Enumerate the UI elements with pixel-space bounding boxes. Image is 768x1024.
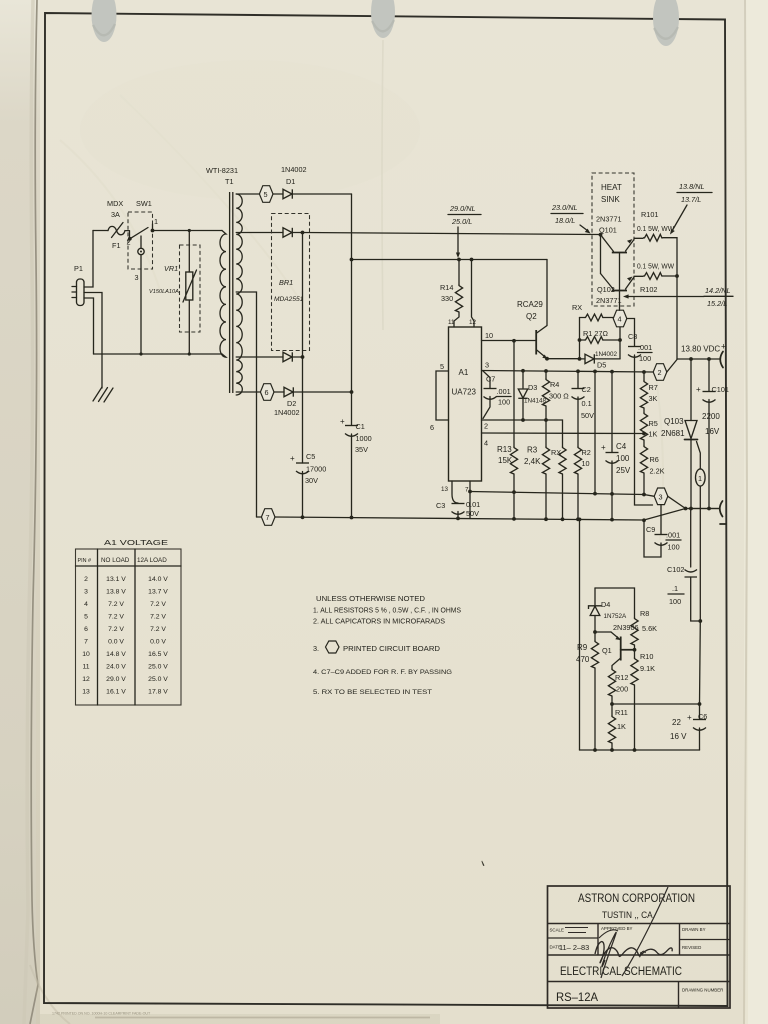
svg-text:1K: 1K: [649, 430, 658, 439]
svg-text:3: 3: [485, 361, 489, 370]
resistor R101: [634, 237, 643, 239]
svg-text:35V: 35V: [355, 445, 368, 454]
svg-text:RCA29: RCA29: [517, 300, 543, 309]
resistor RX column: [559, 446, 566, 474]
capacitor C2 0.1/50V: [576, 369, 580, 373]
varistor symbol: [186, 272, 193, 300]
diode D2 1N4002: [284, 387, 293, 396]
wire switch to transformer: [153, 230, 223, 232]
faint creases / stains: [120, 95, 300, 300]
svg-text:25.0/L: 25.0/L: [451, 217, 472, 226]
svg-text:MDA2551: MDA2551: [274, 296, 304, 303]
heat sink dashed box: [592, 173, 634, 306]
svg-text:SCALE: SCALE: [550, 928, 564, 933]
svg-text:15K: 15K: [498, 456, 513, 465]
svg-text:R6: R6: [650, 455, 659, 464]
R14 330: [457, 258, 461, 262]
svg-text:RX: RX: [551, 448, 561, 457]
svg-text:DRAWING NUMBER: DRAWING NUMBER: [682, 988, 723, 993]
svg-text:.001: .001: [497, 387, 511, 396]
switch blade: [125, 228, 148, 239]
svg-text:0.1 5W, WW: 0.1 5W, WW: [637, 262, 674, 271]
svg-text:TUSTIN ,, CA.: TUSTIN ,, CA.: [602, 910, 655, 920]
BR1 top diode: [283, 228, 292, 237]
svg-text:T1: T1: [225, 177, 234, 186]
bottom AC wire: [94, 353, 223, 355]
svg-text:Q101: Q101: [599, 226, 617, 235]
hole punch left: [92, 0, 117, 42]
svg-text:3A: 3A: [111, 210, 120, 219]
svg-text:4: 4: [84, 601, 88, 608]
svg-text:RS–12A: RS–12A: [556, 990, 598, 1004]
RX / R1 / D5 parallel group: [579, 318, 581, 359]
right paper edge: [744, 0, 747, 1024]
plug P1: [77, 279, 85, 306]
svg-text:2,4K: 2,4K: [524, 457, 541, 466]
zener D4 1N752A: [594, 588, 596, 605]
T1 secondary winding: [236, 194, 242, 395]
svg-text:HEAT: HEAT: [601, 183, 622, 192]
svg-text:C1: C1: [356, 422, 365, 431]
svg-text:3: 3: [659, 493, 663, 502]
bottom scan shadow: [40, 1014, 440, 1024]
svg-text:22: 22: [672, 718, 681, 727]
P1 prongs: [72, 287, 77, 298]
svg-text:NO LOAD: NO LOAD: [101, 557, 130, 564]
svg-text:+: +: [721, 342, 726, 352]
torn left paper edge: [30, 0, 38, 1024]
svg-text:R8: R8: [640, 609, 649, 618]
svg-text:.1: .1: [672, 584, 678, 593]
svg-text:2. ALL CAPICATORS IN MICROFAR: 2. ALL CAPICATORS IN MICROFARADS: [313, 617, 445, 626]
resistor R4 300: [544, 369, 548, 373]
capacitor C8: [628, 347, 641, 358]
resistor R6 2.2K: [643, 440, 645, 445]
svg-text:BR1: BR1: [279, 278, 293, 287]
resistor R10 9.1K: [634, 650, 636, 657]
svg-text:C2: C2: [582, 385, 591, 394]
svg-text:3.: 3.: [313, 644, 319, 653]
D1/D2 column with C1 down to ground rail: [351, 194, 353, 518]
svg-text:R9: R9: [577, 643, 588, 652]
svg-text:1: 1: [698, 474, 702, 483]
svg-text:16V: 16V: [705, 427, 720, 436]
svg-text:6: 6: [430, 423, 434, 432]
svg-text:11: 11: [448, 319, 455, 326]
svg-text:+: +: [696, 385, 701, 394]
svg-text:16 V: 16 V: [670, 732, 687, 741]
13.80 VDC rail: [677, 358, 720, 360]
svg-text:PIN #: PIN #: [78, 558, 91, 564]
node 2: [653, 364, 667, 381]
svg-text:14.8 V: 14.8 V: [106, 651, 126, 658]
svg-text:100: 100: [668, 543, 680, 552]
ground rail: [275, 509, 719, 521]
resistor R9 470: [594, 632, 596, 640]
svg-text:50V: 50V: [581, 411, 594, 420]
svg-text:7: 7: [84, 639, 88, 646]
BR1 dashed box: [272, 214, 310, 351]
resistor R8 5.6K: [631, 617, 638, 645]
svg-text:2: 2: [127, 238, 131, 247]
svg-text:18.0/L: 18.0/L: [555, 216, 575, 225]
capacitor C101 2200/16V: [708, 359, 710, 509]
capacitor C5: [302, 472, 304, 518]
svg-text:13.1 V: 13.1 V: [106, 576, 126, 583]
crowbar top wire: [595, 588, 635, 617]
crowbar junction wire to C6: [612, 703, 700, 705]
svg-text:REVISED: REVISED: [682, 945, 701, 950]
svg-text:2N3771: 2N3771: [596, 296, 622, 305]
wire BR1 output rail to heatsink: [303, 233, 601, 235]
svg-text:300 Ω: 300 Ω: [549, 392, 569, 401]
secondary tap 2 to BR1: [236, 232, 283, 234]
svg-text:2: 2: [84, 576, 88, 583]
svg-text:13.7 V: 13.7 V: [148, 589, 168, 596]
wire P1 neutral to bottom rail: [84, 298, 94, 354]
resistor R102: [634, 275, 643, 277]
svg-text:330: 330: [441, 294, 453, 303]
svg-text:D2: D2: [287, 399, 296, 408]
svg-text:+: +: [290, 454, 295, 463]
svg-text:7.2 V: 7.2 V: [150, 614, 166, 621]
svg-text:C7: C7: [486, 375, 495, 384]
svg-text:ELECTRICAL SCHEMATIC: ELECTRICAL SCHEMATIC: [560, 964, 682, 978]
svg-text:PRINTED CIRCUIT BOARD: PRINTED CIRCUIT BOARD: [343, 644, 440, 653]
svg-text:+: +: [601, 443, 606, 452]
svg-text:Q1: Q1: [602, 646, 612, 655]
svg-text:C6: C6: [698, 712, 707, 721]
output column from R101/R102: [676, 238, 678, 359]
svg-text:100: 100: [498, 398, 510, 407]
diode D5 1N4002: [580, 358, 586, 360]
svg-text:R102: R102: [640, 285, 657, 294]
svg-text:.001: .001: [666, 531, 680, 540]
svg-text:1K: 1K: [617, 722, 626, 731]
capacitor C7 branch: [483, 371, 490, 419]
pin7 sense wire to node 3: [470, 492, 644, 495]
capacitor C6 22/16V: [699, 621, 702, 719]
svg-text:25V: 25V: [616, 466, 631, 475]
svg-text:0.1: 0.1: [582, 399, 592, 408]
svg-text:R1 27Ω: R1 27Ω: [583, 329, 608, 338]
node 6: [260, 384, 274, 401]
svg-text:10: 10: [582, 459, 590, 468]
wire P1 hot to fuse: [84, 231, 93, 288]
fuse F1: [108, 226, 125, 234]
svg-text:17.8 V: 17.8 V: [148, 689, 168, 696]
svg-text:R10: R10: [640, 652, 653, 661]
svg-text:10: 10: [82, 651, 90, 658]
svg-text:24.0 V: 24.0 V: [106, 664, 126, 671]
svg-text:C3: C3: [436, 501, 445, 510]
svg-text:C9: C9: [646, 525, 655, 534]
resistor R3 2.4K: [542, 446, 549, 474]
wire node4 to C8 column: [627, 319, 635, 347]
BR1 lower diode: [283, 352, 292, 361]
svg-text:100: 100: [669, 597, 681, 606]
wire node5 to D1: [273, 193, 283, 195]
svg-text:R14: R14: [440, 283, 453, 292]
svg-text:3: 3: [84, 589, 88, 596]
node 5: [259, 186, 273, 203]
svg-text:R7: R7: [649, 383, 658, 392]
svg-text:12: 12: [469, 319, 477, 326]
varistor VR1 dashed box: [180, 245, 201, 332]
svg-text:R11: R11: [615, 708, 628, 717]
svg-text:P1: P1: [74, 264, 83, 273]
svg-text:30V: 30V: [305, 476, 318, 485]
svg-text:13: 13: [82, 689, 90, 696]
svg-text:R4: R4: [550, 380, 559, 389]
svg-text:0.0 V: 0.0 V: [150, 639, 166, 646]
svg-text:15.2/L: 15.2/L: [707, 299, 727, 308]
svg-text:SW1: SW1: [136, 199, 152, 208]
svg-text:13.8 V: 13.8 V: [106, 589, 126, 596]
svg-text:7.2 V: 7.2 V: [108, 626, 124, 633]
svg-text:D1: D1: [286, 177, 295, 186]
svg-text:7.2 V: 7.2 V: [108, 601, 124, 608]
svg-text:2N3771: 2N3771: [596, 215, 622, 224]
svg-text:Q102: Q102: [597, 285, 615, 294]
svg-text:29.0 V: 29.0 V: [106, 676, 126, 683]
base line Q101/Q102 to node 4: [619, 253, 621, 311]
node 4: [613, 310, 627, 327]
svg-text:23.0/NL: 23.0/NL: [551, 203, 578, 212]
secondary center tap: [236, 292, 256, 517]
svg-text:13.7/L: 13.7/L: [681, 195, 701, 204]
hole punch middle: [371, 0, 395, 38]
svg-text:V150LA10A: V150LA10A: [149, 289, 179, 295]
svg-text:D4: D4: [601, 600, 610, 609]
svg-text:2: 2: [484, 422, 488, 431]
lower output rail: [686, 508, 720, 510]
svg-text:1N752A: 1N752A: [604, 613, 628, 620]
svg-text:12: 12: [82, 676, 90, 683]
svg-text:SINK: SINK: [601, 195, 620, 204]
svg-text:F1: F1: [112, 241, 121, 250]
stray ink mark: [482, 861, 485, 867]
diode D1 1N4002: [283, 189, 292, 198]
svg-text:3: 3: [135, 273, 139, 282]
svg-text:25.0 V: 25.0 V: [148, 676, 168, 683]
hole punch right: [653, 0, 679, 46]
svg-text:D3: D3: [528, 383, 537, 392]
svg-text:R5: R5: [649, 419, 658, 428]
svg-text:2.2K: 2.2K: [650, 467, 665, 476]
secondary bottom tap to node 6: [236, 391, 260, 393]
svg-text:2: 2: [658, 368, 662, 377]
svg-text:C5: C5: [306, 452, 315, 461]
svg-text:16.5 V: 16.5 V: [148, 651, 168, 658]
svg-text:100: 100: [639, 354, 651, 363]
svg-text:VR1: VR1: [164, 264, 178, 273]
svg-text:Q103: Q103: [664, 417, 684, 426]
svg-text:C101: C101: [712, 385, 729, 394]
svg-text:5: 5: [440, 362, 444, 371]
svg-text:R2: R2: [582, 448, 591, 457]
svg-text:0.1 5W, WW: 0.1 5W, WW: [637, 224, 674, 233]
svg-text:7.2 V: 7.2 V: [108, 614, 124, 621]
capacitor C9 below node 3: [660, 505, 662, 534]
svg-text:470: 470: [576, 655, 590, 664]
svg-text:D5: D5: [597, 361, 606, 370]
svg-text:R13: R13: [497, 445, 512, 454]
svg-text:13: 13: [441, 486, 449, 493]
T1 primary winding: [220, 231, 226, 358]
output connector +: [720, 352, 723, 368]
svg-text:RX: RX: [572, 303, 582, 312]
secondary tap 4 to BR1 lower diode: [236, 356, 283, 358]
svg-text:5: 5: [84, 614, 88, 621]
BR1 output column down to C5: [302, 233, 304, 464]
output connector -: [720, 501, 723, 517]
wire top AC: [93, 230, 108, 232]
svg-text:2200: 2200: [702, 412, 720, 421]
svg-text:Q2: Q2: [526, 312, 537, 321]
svg-text:4: 4: [484, 439, 488, 448]
svg-text:C8: C8: [628, 332, 637, 341]
capacitor C102 .1/100: [690, 509, 692, 568]
Q2 emitter wire: [547, 358, 580, 360]
signature: [622, 887, 668, 976]
node 3: [644, 495, 654, 497]
pin 12 wire: [470, 258, 474, 262]
svg-text:R3: R3: [527, 446, 538, 455]
svg-text:A1 VOLTAGE: A1 VOLTAGE: [104, 538, 168, 547]
svg-text:A1: A1: [459, 368, 469, 377]
svg-text:14.0 V: 14.0 V: [148, 576, 168, 583]
resistor R11 1K: [611, 704, 613, 715]
svg-text:UA723: UA723: [452, 388, 477, 397]
svg-text:C102: C102: [667, 565, 684, 574]
svg-text:13.8/NL: 13.8/NL: [679, 182, 705, 191]
secondary tap top to node 5: [236, 193, 259, 195]
VR1 wires: [188, 231, 190, 355]
resistor R7 3K: [642, 370, 646, 374]
wire D1 to corner: [292, 193, 351, 195]
svg-text:ASTRON CORPORATION: ASTRON CORPORATION: [578, 891, 695, 905]
resistor R13 15K column: [513, 341, 515, 446]
svg-text:11– 2–83: 11– 2–83: [559, 943, 589, 952]
capacitor C4 100/25V: [610, 370, 614, 374]
svg-text:9.1K: 9.1K: [640, 664, 655, 673]
svg-text:6: 6: [265, 388, 269, 397]
svg-text:5: 5: [264, 190, 268, 199]
svg-text:4. C7–C9 ADDED FOR R. F. BY: 4. C7–C9 ADDED FOR R. F. BY PASSING: [313, 669, 452, 676]
svg-text:2N681: 2N681: [661, 429, 685, 438]
svg-text:4: 4: [618, 315, 622, 324]
T1 core: [230, 192, 233, 393]
svg-text:DRAWN BY: DRAWN BY: [682, 927, 706, 932]
wire node link: [593, 370, 597, 374]
svg-text:5. RX TO BE SELECTED IN TEST: 5. RX TO BE SELECTED IN TEST: [313, 689, 432, 696]
svg-text:WTI-8231: WTI-8231: [206, 166, 238, 175]
svg-text:50V: 50V: [466, 509, 479, 518]
svg-text:12A LOAD: 12A LOAD: [137, 557, 167, 564]
svg-text:R12: R12: [615, 673, 628, 682]
wire D2 to column: [293, 391, 351, 393]
ground: [93, 387, 113, 402]
svg-text:29.0/NL: 29.0/NL: [449, 204, 476, 213]
svg-text:200: 200: [616, 685, 628, 694]
svg-text:13.80 VDC: 13.80 VDC: [681, 345, 720, 354]
svg-text:5.6K: 5.6K: [642, 624, 657, 633]
wire node6 to D2: [274, 391, 284, 393]
SCR gate to PCB pin 1: [697, 442, 701, 470]
svg-text:.001: .001: [638, 343, 652, 352]
svg-text:17000: 17000: [306, 465, 326, 474]
svg-text:11: 11: [82, 664, 89, 671]
junction BR1 top out: [301, 231, 305, 235]
svg-text:7: 7: [266, 513, 270, 522]
svg-text:1N4002: 1N4002: [595, 351, 618, 358]
svg-text:1: 1: [154, 217, 158, 226]
capacitor C1: [345, 426, 358, 437]
svg-text:100: 100: [616, 454, 630, 463]
svg-text:R101: R101: [641, 210, 658, 219]
svg-text:UNLESS OTHERWISE NOTED: UNLESS OTHERWISE NOTED: [316, 594, 425, 603]
svg-text:0.01: 0.01: [466, 500, 480, 509]
29V rail: [352, 259, 548, 261]
gate line down: [699, 486, 701, 621]
resistor RX: [584, 314, 604, 321]
svg-text:MDX: MDX: [107, 199, 123, 208]
svg-text:1N4002: 1N4002: [281, 165, 307, 174]
svg-text:C4: C4: [616, 442, 627, 451]
wire P1 gnd: [84, 293, 102, 389]
svg-text:+: +: [340, 417, 345, 426]
svg-text:10: 10: [485, 331, 493, 340]
crowbar left vertical: [578, 518, 582, 522]
resistor R1 27ohm: [578, 338, 582, 342]
svg-text:16.1 V: 16.1 V: [106, 689, 126, 696]
svg-text:6: 6: [84, 626, 88, 633]
transistor Q102 2N3771: [600, 235, 602, 274]
crowbar bottom rail: [580, 749, 700, 751]
svg-text:25.0 V: 25.0 V: [148, 664, 168, 671]
resistor R2 10: [574, 446, 581, 474]
svg-text:1000: 1000: [356, 434, 372, 443]
resistor R12 200: [608, 668, 615, 696]
node 7: [257, 516, 262, 518]
svg-text:7.2 V: 7.2 V: [150, 626, 166, 633]
svg-text:1. ALL RESISTORS 5 % , 0.5W ,: 1. ALL RESISTORS 5 % , 0.5W , C.F. , IN …: [313, 606, 461, 615]
svg-text:7.2 V: 7.2 V: [150, 601, 166, 608]
svg-text:0.0 V: 0.0 V: [108, 639, 124, 646]
op-amp regulator U/A1 UA723: [449, 327, 482, 481]
svg-text:1N4002: 1N4002: [274, 408, 300, 417]
svg-text:14.2/NL: 14.2/NL: [705, 286, 731, 295]
svg-text:+: +: [687, 713, 692, 722]
switch contact circle pin 3: [138, 248, 144, 254]
svg-text:1742 PRINTED ON NO. 1000H-10: 1742 PRINTED ON NO. 1000H-10 CLEARPRINT …: [52, 1012, 151, 1016]
diode D3 1N4148: [521, 369, 525, 373]
svg-text:3K: 3K: [649, 394, 658, 403]
resistor R5 1K: [643, 408, 645, 412]
switch SW1 dashed box: [128, 212, 153, 269]
